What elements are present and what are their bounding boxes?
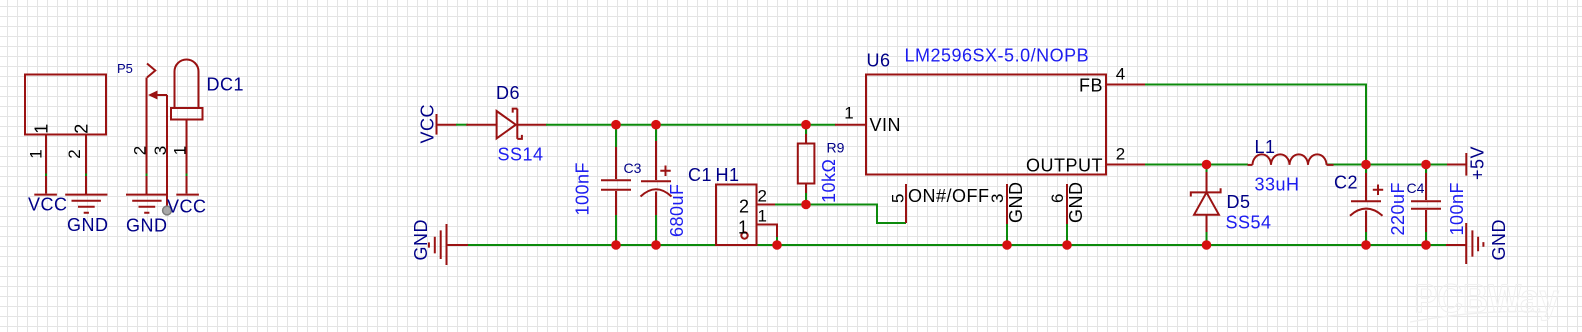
junction dots bbox=[611, 120, 1431, 250]
svg-text:33uH: 33uH bbox=[1255, 175, 1300, 195]
svg-text:100nF: 100nF bbox=[1447, 182, 1467, 236]
svg-text:6: 6 bbox=[1048, 194, 1067, 203]
top lead bbox=[1425, 165, 1427, 175]
svg-text:2: 2 bbox=[131, 146, 150, 155]
pin 2 lead bbox=[146, 78, 148, 175]
pin 6 GND name bbox=[1066, 182, 1086, 224]
top lead bbox=[805, 125, 807, 135]
DC jack DC1 bbox=[117, 60, 244, 236]
svg-text:R9: R9 bbox=[827, 140, 845, 156]
wire bbox=[146, 174, 148, 178]
wire OUTPUT net bbox=[1145, 164, 1248, 166]
diode D6 bbox=[466, 83, 546, 165]
svg-text:D5: D5 bbox=[1227, 192, 1251, 212]
wire VCC to D6 bbox=[456, 124, 468, 126]
junction VIN/100nF bbox=[611, 120, 621, 130]
schottky bar bbox=[1191, 188, 1221, 196]
svg-text:GND: GND bbox=[1006, 182, 1026, 224]
svg-text:3: 3 bbox=[988, 194, 1007, 203]
pin 1 barrel bbox=[175, 60, 199, 109]
GND flag DC1 pin 2 bbox=[126, 176, 167, 213]
pin 1 lead bbox=[45, 135, 47, 175]
body bbox=[866, 75, 1106, 175]
wire H1 pin2 / R9 / pin5 jog bbox=[775, 205, 906, 224]
VCC tick bbox=[436, 114, 438, 135]
pin 1 lead bbox=[186, 120, 188, 175]
junction GND/D5 bbox=[1202, 240, 1212, 250]
GND symbol bbox=[429, 224, 447, 265]
pin 2 number bbox=[131, 146, 150, 155]
pin 6 wire bbox=[1066, 224, 1068, 245]
pin 2 OUTPUT lead bbox=[1106, 164, 1146, 166]
net flag GND (bottom-right) bbox=[1446, 219, 1509, 264]
net GND text bbox=[1489, 219, 1509, 261]
svg-text:U6: U6 bbox=[867, 51, 891, 71]
net flag +5V bbox=[1447, 146, 1488, 180]
junction GND/pin3 bbox=[1002, 240, 1012, 250]
svg-text:1: 1 bbox=[27, 149, 46, 158]
+5V lead bbox=[1447, 164, 1466, 166]
bottom lead bbox=[1425, 210, 1427, 233]
net flag GND (bottom-left) bbox=[411, 219, 468, 265]
junction VIN/R9 bbox=[801, 120, 811, 130]
svg-text:2: 2 bbox=[758, 187, 767, 206]
value 220uF bbox=[1388, 182, 1408, 236]
body bbox=[716, 185, 757, 246]
svg-text:5: 5 bbox=[889, 194, 908, 203]
pin 5 number bbox=[889, 194, 908, 203]
svg-text:4: 4 bbox=[1116, 65, 1125, 84]
pin 3 switch arrow bbox=[150, 94, 167, 96]
cathode lead bbox=[517, 124, 546, 126]
svg-text:H1: H1 bbox=[716, 165, 740, 185]
plates bbox=[1411, 201, 1441, 209]
VCC flag pin 1 bbox=[34, 176, 57, 195]
bottom lead bbox=[805, 184, 807, 195]
pin 1 mark bbox=[741, 232, 747, 238]
pin 1 number bbox=[171, 146, 190, 155]
wire bbox=[186, 174, 188, 178]
body bbox=[798, 144, 815, 184]
svg-text:GND: GND bbox=[67, 215, 109, 235]
lead left bbox=[1248, 164, 1253, 166]
junction OUT/D5 bbox=[1202, 160, 1212, 170]
triangle bbox=[1194, 192, 1219, 214]
svg-text:C2: C2 bbox=[1334, 173, 1358, 193]
header H1 bbox=[688, 165, 777, 245]
anode lead bbox=[1206, 215, 1208, 233]
watermark bbox=[1410, 277, 1560, 322]
svg-text:LM2596SX-5.0/NOPB: LM2596SX-5.0/NOPB bbox=[905, 46, 1090, 66]
svg-text:SS54: SS54 bbox=[1226, 213, 1272, 233]
pin 3 wire bbox=[1006, 224, 1008, 245]
svg-text:C4: C4 bbox=[1407, 180, 1425, 196]
anode lead bbox=[466, 124, 496, 126]
pin 1 name bbox=[32, 123, 52, 134]
triangle bbox=[497, 111, 516, 138]
wire FB net bbox=[1145, 85, 1366, 165]
svg-text:PCBWay: PCBWay bbox=[1414, 277, 1560, 321]
svg-text:+5V: +5V bbox=[1468, 146, 1488, 180]
pin 6 number bbox=[1048, 194, 1067, 203]
pin 2 lead bbox=[85, 135, 87, 175]
coil bbox=[1253, 154, 1327, 165]
svg-text:1: 1 bbox=[844, 104, 853, 123]
curved plate bbox=[641, 189, 672, 196]
svg-text:GND: GND bbox=[1489, 219, 1509, 261]
top lead bbox=[1365, 165, 1367, 175]
svg-text:2: 2 bbox=[1116, 145, 1125, 164]
svg-text:C3: C3 bbox=[624, 160, 642, 176]
VCC lead bbox=[437, 124, 456, 126]
svg-text:VCC: VCC bbox=[167, 196, 207, 216]
top lead bbox=[655, 125, 657, 142]
plus sign bbox=[1373, 185, 1383, 196]
top lead bbox=[615, 125, 617, 147]
cathode lead bbox=[1206, 165, 1208, 174]
GND lead bbox=[447, 244, 469, 246]
pin 6 lead bbox=[1066, 184, 1068, 225]
VCC flag DC1 pin 1 bbox=[176, 176, 199, 195]
+5V tick bbox=[1465, 153, 1467, 176]
junction GND/H1 bbox=[772, 240, 782, 250]
capacitor C4 100nF bbox=[1407, 165, 1468, 246]
pin 1 wire bbox=[776, 237, 778, 245]
capacitor C2 220uF bbox=[1334, 165, 1408, 246]
pin 2 chevron contact bbox=[147, 64, 155, 78]
junction GND/100nF bbox=[611, 240, 621, 250]
junction GND/C3 bbox=[651, 240, 661, 250]
svg-text:GND: GND bbox=[126, 215, 168, 235]
svg-text:GND: GND bbox=[411, 219, 431, 261]
svg-text:3: 3 bbox=[151, 146, 170, 155]
value 680uF bbox=[667, 183, 687, 237]
svg-text:VCC: VCC bbox=[418, 104, 438, 144]
svg-text:GND: GND bbox=[1066, 182, 1086, 224]
pin 2 name bbox=[72, 123, 92, 134]
inductor L1 bbox=[1248, 137, 1334, 195]
diode D5 bbox=[1191, 165, 1272, 246]
bottom lead bbox=[655, 192, 657, 217]
junction R9/ON#OFF bbox=[801, 200, 811, 210]
svg-text:2: 2 bbox=[739, 197, 750, 217]
capacitor (100nF) bbox=[573, 125, 632, 245]
pin 1 lead bbox=[757, 225, 778, 239]
junction GND/C4 bbox=[1421, 240, 1431, 250]
junction GND/C2 bbox=[1361, 240, 1371, 250]
schottky bar bbox=[513, 109, 522, 139]
junction OUT/C4 bbox=[1421, 160, 1431, 170]
pin 3 open end bbox=[163, 206, 172, 215]
resistor R9 bbox=[798, 125, 845, 205]
svg-text:2: 2 bbox=[72, 123, 92, 134]
svg-text:2: 2 bbox=[65, 149, 84, 158]
svg-text:1: 1 bbox=[171, 146, 190, 155]
net +5V text bbox=[1468, 146, 1488, 180]
svg-text:ON#/OFF: ON#/OFF bbox=[908, 186, 990, 206]
connector body bbox=[25, 75, 106, 135]
svg-text:1: 1 bbox=[758, 207, 767, 226]
capacitor C3 680uF bbox=[624, 125, 688, 245]
GND lead bbox=[1446, 244, 1466, 246]
svg-text:1: 1 bbox=[738, 218, 749, 238]
plates bbox=[601, 180, 631, 190]
GND symbol bbox=[1466, 223, 1483, 264]
curved plate bbox=[1350, 209, 1383, 216]
svg-text:680uF: 680uF bbox=[667, 183, 687, 237]
pin 4 FB lead bbox=[1106, 84, 1146, 86]
svg-text:DC1: DC1 bbox=[207, 75, 245, 95]
svg-text:C1: C1 bbox=[688, 165, 712, 185]
svg-text:VIN: VIN bbox=[870, 115, 902, 135]
straight plate bbox=[1351, 200, 1381, 202]
svg-text:1: 1 bbox=[32, 123, 52, 134]
junction VIN/C3 bbox=[651, 120, 661, 130]
pin 1 VIN lead bbox=[835, 124, 866, 126]
pin 3 lead bbox=[166, 95, 168, 206]
pin 2 lead bbox=[757, 204, 776, 206]
pin 3 GND name bbox=[1006, 182, 1026, 224]
wire bbox=[85, 174, 87, 178]
connector P? (left box) bbox=[25, 75, 109, 236]
plus sign bbox=[660, 166, 670, 177]
pin 2 number bbox=[65, 149, 84, 158]
svg-text:220uF: 220uF bbox=[1388, 182, 1408, 236]
svg-text:FB: FB bbox=[1079, 76, 1103, 96]
svg-text:D6: D6 bbox=[496, 83, 520, 103]
straight plate bbox=[641, 180, 671, 182]
svg-text:P5: P5 bbox=[117, 61, 133, 76]
bottom lead bbox=[615, 191, 617, 216]
pin 1 number bbox=[27, 149, 46, 158]
junction GND/pin6 bbox=[1062, 240, 1072, 250]
value 100nF bbox=[1447, 182, 1467, 236]
wire bbox=[45, 174, 47, 178]
svg-text:10kΩ: 10kΩ bbox=[819, 159, 839, 203]
wire D6 to VIN bbox=[546, 124, 836, 126]
net VCC text bbox=[418, 104, 438, 144]
value 10kOhm bbox=[819, 159, 839, 203]
pin 3 number bbox=[151, 146, 170, 155]
pin 1 flange bbox=[171, 108, 203, 120]
net flag VCC (input rail) bbox=[418, 104, 457, 144]
svg-text:OUTPUT: OUTPUT bbox=[1026, 156, 1103, 176]
pin 3 number bbox=[988, 194, 1007, 203]
junction OUT/FB/C2 bbox=[1361, 160, 1371, 170]
GND flag pin 2 bbox=[65, 176, 107, 213]
value 100nF bbox=[573, 162, 593, 216]
wire ground rail bbox=[467, 244, 1447, 246]
pin 3 lead bbox=[1006, 184, 1008, 225]
svg-text:100nF: 100nF bbox=[573, 162, 593, 216]
IC U6 bbox=[835, 46, 1146, 246]
pin 5 lead bbox=[905, 184, 907, 223]
lead right bbox=[1327, 164, 1334, 166]
svg-text:VCC: VCC bbox=[28, 195, 68, 215]
svg-text:SS14: SS14 bbox=[498, 145, 544, 165]
net GND text bbox=[411, 219, 431, 261]
bottom lead bbox=[1365, 211, 1367, 234]
